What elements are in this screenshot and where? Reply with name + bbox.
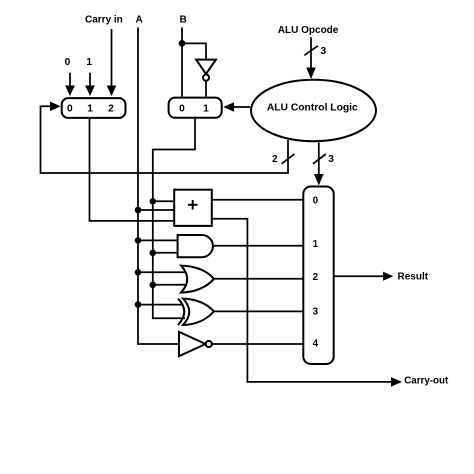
- svg-text:2: 2: [108, 104, 114, 115]
- svg-text:0: 0: [179, 104, 185, 115]
- svg-text:0: 0: [313, 196, 319, 207]
- svg-text:1: 1: [313, 239, 319, 250]
- svg-text:4: 4: [313, 338, 319, 349]
- svg-text:1: 1: [203, 104, 209, 115]
- svg-text:2: 2: [272, 154, 278, 165]
- svg-text:3: 3: [313, 306, 319, 317]
- svg-text:0: 0: [65, 57, 71, 68]
- svg-text:1: 1: [86, 57, 92, 68]
- svg-text:ALU Control Logic: ALU Control Logic: [267, 103, 358, 114]
- svg-text:Carry-out: Carry-out: [404, 376, 449, 387]
- svg-text:B: B: [180, 15, 187, 26]
- svg-text:0: 0: [67, 104, 73, 115]
- svg-text:3: 3: [328, 154, 334, 165]
- svg-text:Carry in: Carry in: [85, 15, 123, 26]
- svg-text:Result: Result: [398, 272, 429, 283]
- svg-text:A: A: [136, 15, 143, 26]
- svg-text:1: 1: [87, 104, 93, 115]
- svg-text:2: 2: [313, 272, 319, 283]
- svg-text:ALU Opcode: ALU Opcode: [278, 25, 339, 36]
- svg-text:3: 3: [321, 46, 327, 57]
